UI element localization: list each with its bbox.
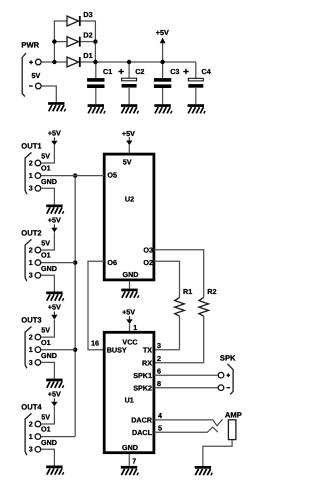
- svg-text:D1: D1: [83, 51, 92, 60]
- svg-text:3: 3: [29, 445, 33, 454]
- svg-text:GND: GND: [41, 438, 57, 447]
- svg-text:+5V: +5V: [122, 307, 135, 316]
- svg-text:1: 1: [29, 345, 33, 354]
- svg-text:C3: C3: [170, 67, 179, 76]
- svg-text:16: 16: [91, 339, 99, 348]
- svg-text:SPK2: SPK2: [133, 383, 152, 392]
- svg-text:OUT4: OUT4: [21, 402, 42, 411]
- svg-text:OUT1: OUT1: [21, 141, 42, 150]
- svg-text:GND: GND: [41, 177, 57, 186]
- svg-text:+5V: +5V: [156, 28, 169, 37]
- svg-text:C1: C1: [103, 67, 112, 76]
- svg-text:+5V: +5V: [48, 389, 61, 398]
- svg-text:2: 2: [29, 158, 33, 167]
- svg-text:O1: O1: [41, 164, 51, 173]
- svg-text:O1: O1: [41, 251, 51, 260]
- svg-text:TX: TX: [143, 345, 152, 354]
- svg-text:5V: 5V: [41, 152, 50, 161]
- svg-text:4: 4: [158, 411, 162, 420]
- svg-text:2: 2: [29, 245, 33, 254]
- svg-text:SPK1: SPK1: [133, 371, 152, 380]
- svg-text:GND: GND: [41, 264, 57, 273]
- svg-text:U2: U2: [125, 195, 134, 204]
- svg-text:1: 1: [29, 171, 33, 180]
- svg-text:GND: GND: [123, 270, 139, 279]
- svg-text:5V: 5V: [41, 326, 50, 335]
- svg-text:AMP: AMP: [225, 410, 242, 419]
- svg-text:O1: O1: [41, 338, 51, 347]
- svg-text:+5V: +5V: [48, 128, 61, 137]
- svg-text:C2: C2: [135, 67, 144, 76]
- svg-text:O3: O3: [143, 245, 153, 254]
- svg-text:PWR: PWR: [21, 41, 39, 50]
- svg-text:8: 8: [157, 379, 161, 388]
- svg-text:U1: U1: [125, 395, 134, 404]
- svg-text:5V: 5V: [41, 239, 50, 248]
- svg-text:3: 3: [29, 184, 33, 193]
- svg-text:C4: C4: [202, 67, 211, 76]
- svg-text:5: 5: [158, 424, 162, 433]
- svg-text:DACL: DACL: [132, 428, 153, 437]
- svg-text:BUSY: BUSY: [107, 345, 127, 354]
- svg-text:SPK: SPK: [220, 353, 236, 362]
- svg-text:+5V: +5V: [122, 129, 135, 138]
- svg-text:+5V: +5V: [48, 215, 61, 224]
- svg-text:1: 1: [133, 323, 137, 332]
- svg-text:OUT3: OUT3: [21, 316, 41, 325]
- svg-text:2: 2: [29, 419, 33, 428]
- svg-text:1: 1: [29, 258, 33, 267]
- svg-text:2: 2: [29, 333, 33, 342]
- svg-text:O6: O6: [107, 258, 117, 267]
- svg-text:D2: D2: [83, 31, 92, 40]
- svg-text:O2: O2: [143, 258, 153, 267]
- svg-text:D3: D3: [83, 10, 92, 19]
- svg-text:RX: RX: [142, 358, 152, 367]
- svg-text:6: 6: [157, 366, 161, 375]
- svg-text:1: 1: [29, 432, 33, 441]
- svg-text:5V: 5V: [32, 71, 41, 80]
- svg-text:3: 3: [29, 358, 33, 367]
- svg-text:3: 3: [29, 271, 33, 280]
- svg-text:O5: O5: [107, 171, 117, 180]
- svg-text:DACR: DACR: [131, 416, 153, 425]
- svg-text:7: 7: [132, 457, 136, 466]
- svg-text:OUT2: OUT2: [21, 228, 41, 237]
- svg-text:+5V: +5V: [48, 303, 61, 312]
- svg-text:R1: R1: [183, 287, 192, 296]
- svg-text:2: 2: [157, 354, 161, 363]
- svg-text:5V: 5V: [123, 158, 132, 167]
- svg-text:GND: GND: [41, 351, 57, 360]
- svg-text:3: 3: [157, 341, 161, 350]
- svg-text:GND: GND: [122, 443, 138, 452]
- svg-text:R2: R2: [207, 287, 216, 296]
- svg-text:5V: 5V: [41, 413, 50, 422]
- svg-text:O1: O1: [41, 425, 51, 434]
